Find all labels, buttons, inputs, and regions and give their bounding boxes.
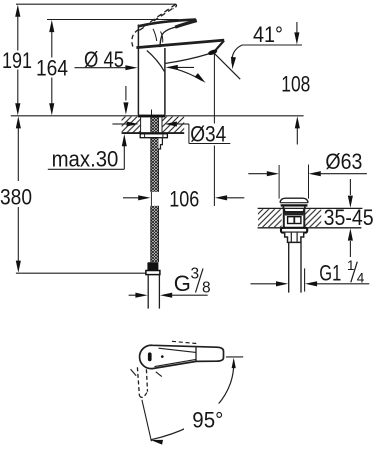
svg-text:108: 108: [281, 72, 310, 97]
counter hatch right-left band: [258, 209, 282, 227]
lever top edge: [139, 20, 196, 27]
counter hatch left of hole: [122, 117, 141, 133]
handle rotated dashed left edge: [137, 367, 139, 395]
spout bottom edge: [166, 54, 209, 64]
svg-text:380: 380: [0, 185, 32, 210]
connection tube G3/8: [147, 275, 149, 309]
counter hatch right-right band: [305, 209, 322, 227]
dim 108 bottom arrow: [296, 128, 298, 145]
drain cap dome: [280, 198, 308, 203]
threaded shank / flexible hoses: [151, 117, 159, 192]
dimension 164 line: [51, 30, 53, 58]
svg-text:164: 164: [36, 56, 68, 81]
svg-text:1: 1: [347, 258, 355, 273]
counter line right bottom: [258, 227, 362, 229]
95° arc: [152, 361, 234, 440]
dim 108 top arrow: [296, 22, 298, 34]
dim Ø34 left arrow: [112, 123, 127, 125]
svg-text:8: 8: [202, 279, 211, 296]
dim Ø34 right arrow + leader: [165, 122, 177, 127]
dim 35-45 bottom arrow: [349, 241, 351, 257]
extension line (closed lever height ref, y=19.5): [47, 19, 179, 21]
mounting washer: [140, 134, 167, 138]
dim G1 1/4 right leader: [316, 283, 369, 285]
svg-text:Ø 45: Ø 45: [84, 47, 124, 72]
lever tip hook: [175, 21, 197, 28]
dim Ø45 leader+arrows: [75, 67, 128, 69]
drain body in hole: [283, 208, 285, 227]
counter line right top: [258, 207, 363, 209]
handle inner top edge: [159, 348, 197, 352]
svg-text:4: 4: [357, 271, 365, 286]
lever neck curve a: [153, 29, 157, 41]
spout tip underside: [215, 41, 224, 51]
raised lever dashed tip: [173, 4, 177, 8]
dim 106 right arrow: [215, 195, 227, 200]
dash mark lower-left: [131, 369, 137, 376]
bottom reference line (hose end level): [16, 272, 147, 274]
drain cap bottom edge: [281, 205, 308, 207]
handle outline (top view): [140, 345, 224, 368]
dim G1 1/4 left arrow: [251, 283, 278, 285]
handle inner bottom edge: [155, 359, 197, 366]
handle axis line: [142, 400, 152, 442]
drain tailpipe: [288, 242, 290, 292]
handle pivot slot: [148, 352, 152, 361]
drain nut: [285, 233, 304, 243]
max.30 lower arrow (counter bottom): [123, 146, 125, 169]
counter hatch right of hole: [162, 117, 184, 133]
drain body window: [288, 217, 301, 224]
svg-text:G: G: [174, 271, 191, 296]
counter top line: [11, 115, 304, 117]
raised lever dashed top edge: [142, 4, 176, 28]
svg-text:max.30: max.30: [52, 146, 119, 171]
extension line from spout outlet: [213, 53, 215, 123]
dim Ø63 line: [248, 173, 268, 175]
lever neck curve b: [161, 32, 163, 43]
handle reference line right: [226, 356, 243, 358]
41° leader underline: [242, 44, 302, 46]
Ø63 extension lines: [278, 165, 280, 199]
svg-text:Ø63: Ø63: [325, 149, 362, 174]
svg-text:191: 191: [2, 48, 32, 73]
mounting nut step: [158, 138, 162, 149]
counter section bottom line: [122, 132, 185, 134]
body-spout junction curve: [147, 51, 165, 72]
max.30 upper arrow (counter top): [125, 86, 127, 101]
raised lever dashed bottom edge: [139, 9, 172, 31]
handle dashed top line: [172, 341, 198, 343]
spout top edge: [136, 40, 224, 48]
dim 106 left arrow: [123, 197, 139, 199]
faucet body left edge: [137, 25, 139, 115]
handle knob divider: [195, 347, 197, 361]
drain flange: [281, 228, 307, 233]
drain neck: [283, 207, 305, 212]
handle rotated dashed right edge: [146, 369, 147, 391]
hose end nut: [147, 262, 158, 270]
41° arc with arrow: [232, 45, 242, 64]
svg-text:95°: 95°: [192, 408, 223, 433]
faucet base plate on counter: [138, 115, 165, 118]
svg-text:41°: 41°: [253, 22, 283, 47]
handle rotated dashed end cap: [139, 392, 147, 398]
hole edge right: [161, 117, 163, 133]
extension line top (raised lever height ref, y=4.2): [16, 3, 176, 5]
rod sliver above counter: [151, 110, 153, 116]
hose end collar: [146, 271, 160, 275]
dimension 191 line: [17, 15, 19, 51]
handle dot: [161, 355, 164, 358]
drain cap rim: [280, 202, 308, 204]
svg-text:G1: G1: [319, 261, 341, 286]
faucet body right edge: [164, 48, 166, 115]
svg-text:3: 3: [191, 266, 200, 283]
label 95°: [184, 404, 232, 432]
hole edge left: [140, 117, 142, 133]
svg-text:106: 106: [169, 186, 199, 211]
swivel arc with arrow: [174, 68, 202, 80]
dim G3/8 right arrow + leader: [160, 293, 172, 298]
hose gap edge line: [150, 192, 152, 206]
flow direction line 41°: [214, 53, 240, 79]
lever underside: [160, 27, 176, 47]
dim G3/8 left arrow: [129, 294, 137, 296]
svg-text:35-45: 35-45: [324, 205, 374, 230]
dimension 380 line: [17, 127, 19, 182]
svg-text:Ø34: Ø34: [190, 121, 226, 146]
dim 35-45 top arrow: [349, 179, 351, 195]
spout outlet (aerator): [207, 49, 218, 56]
tailpipe thread line: [304, 268, 306, 291]
raised lever dashed back cap: [132, 29, 139, 48]
dash mark lower-mid: [156, 372, 162, 377]
